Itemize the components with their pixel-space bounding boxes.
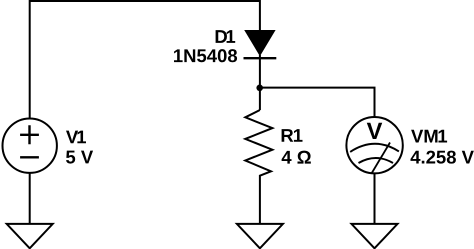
label 4.258 V (411, 151, 474, 164)
node junction dot (256, 85, 263, 92)
VM1 meter upper arc (350, 144, 399, 152)
wire: V1 bottom to ground (29, 173, 31, 224)
wire: diode cathode to resistor top (259, 55, 261, 110)
label V1 (66, 131, 86, 144)
VM1 meter lower arc (359, 158, 394, 163)
VM1 needle (372, 143, 390, 174)
VM1 circle body (346, 117, 402, 173)
label 5 V (66, 151, 93, 164)
voltmeter VM1 (346, 117, 402, 173)
wire: VM1 bottom to ground (374, 173, 376, 223)
ground under R1 (237, 224, 283, 248)
label VM1 (411, 130, 447, 143)
ground under V1 (7, 224, 53, 248)
VM1 letter V (367, 123, 382, 139)
D1 cathode bar (244, 57, 277, 59)
wire: V1 top up, across the top, down to diode anode (30, 1, 260, 119)
label 1N5408 (174, 49, 237, 62)
diode D1 (244, 30, 277, 58)
label 4 ohm (282, 151, 311, 164)
resistor R1 (245, 110, 272, 223)
wire: junction across to voltmeter top (259, 88, 375, 118)
label D1 (216, 30, 236, 43)
D1 anode triangle (244, 30, 275, 56)
ground under VM1 (352, 224, 398, 248)
V1 plus sign (20, 125, 39, 144)
V1 circle body (3, 119, 57, 173)
voltage source V1 (3, 119, 57, 173)
V1 minus sign (20, 156, 39, 158)
label R1 (282, 129, 303, 142)
